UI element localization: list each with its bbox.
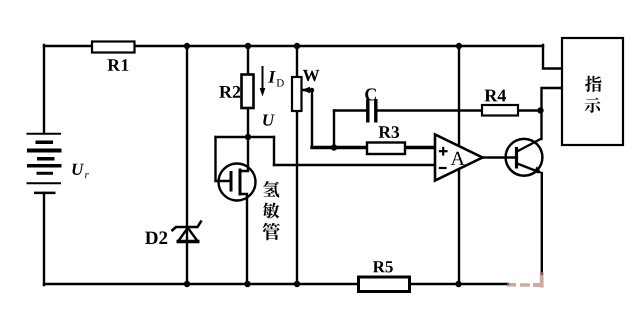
wire gate drop (216, 137, 231, 181)
wire R2 branch upper (247, 46, 249, 75)
label R3 (379, 126, 400, 138)
current arrow ID (262, 66, 264, 90)
wire minus-input horizontal (274, 164, 436, 166)
wire node U horizontal (216, 136, 275, 138)
label C (365, 88, 376, 100)
wire C to R4 (378, 109, 482, 111)
label hydrogen sensor 氢敏管 (263, 181, 279, 197)
resistor R3 (367, 143, 405, 155)
label U (node) (263, 115, 275, 126)
label 示 (585, 98, 601, 113)
battery Ur (27, 134, 62, 193)
node bottom source (244, 281, 250, 287)
resistor R5 (359, 277, 410, 292)
node C/R3 junction (331, 144, 337, 150)
transistor base bar (515, 147, 518, 169)
node top R2 (245, 43, 251, 49)
watermark remnant (red dashes, scan artifact) (507, 272, 544, 288)
label R1 (108, 59, 129, 71)
node bottom D2 (184, 281, 190, 287)
op-amp minus sign (439, 167, 447, 169)
wire collector drop (540, 111, 542, 140)
wire bottom rail (44, 283, 508, 285)
potentiometer W body (292, 77, 302, 111)
op-amp A (435, 135, 483, 181)
resistor R1 (92, 42, 135, 53)
label ID (current) (268, 71, 276, 83)
wire drain (240, 137, 248, 171)
capacitor C plates (366, 99, 369, 123)
resistor R2 (242, 75, 254, 109)
label R4 (485, 90, 506, 102)
transistor Q1 circle (506, 139, 543, 176)
wire W branch lower (296, 111, 298, 285)
transistor emitter (517, 164, 539, 173)
label 指 (585, 76, 602, 92)
wire junction up to indicator stub (542, 88, 563, 111)
wire plus-input with R3 (thick) (312, 146, 436, 149)
wire W branch upper (296, 46, 298, 77)
wire mid riser (crosses behind op-amp) (458, 46, 460, 284)
wire source (240, 194, 247, 284)
wire top-right bend to indicator box (543, 45, 562, 69)
resistor R4 (482, 105, 518, 116)
transistor emitter arrow (533, 166, 542, 173)
hydrogen sensor gate bar (230, 171, 233, 192)
wire top rail (44, 45, 543, 47)
node bottom riser (455, 281, 461, 287)
wire C branch left (334, 109, 366, 111)
node U junction (245, 134, 251, 140)
wire wiper lead (303, 90, 312, 146)
op-amp plus sign (439, 147, 448, 156)
wire D2 branch vertical (186, 46, 188, 284)
transistor collector (517, 139, 542, 152)
node top riser (456, 43, 462, 49)
potentiometer W wiper arrow (302, 87, 311, 93)
node top D2 (184, 43, 190, 49)
wire R4 to junction (518, 109, 540, 111)
label A (op-amp) (451, 152, 465, 165)
node top W (294, 43, 300, 49)
indicator box 指示 (562, 38, 623, 145)
wire R2 branch lower to node U (247, 107, 249, 137)
label R5 (373, 261, 393, 272)
label R2 (219, 86, 240, 98)
hydrogen sensor tube (circle) (219, 164, 256, 201)
wire left rail lower (43, 193, 45, 285)
wire left rail upper (43, 45, 45, 133)
node R4/collector junction (537, 107, 543, 113)
wire C branch vertical (333, 111, 335, 148)
label Ur (battery) (72, 164, 84, 175)
wire op-amp output to base (482, 156, 516, 158)
hydrogen sensor channel bar (239, 169, 242, 196)
wire minus-input step (273, 137, 275, 165)
label D2 (145, 231, 167, 244)
node bottom W (294, 281, 300, 287)
zener diode D2 (172, 221, 202, 242)
label W (303, 70, 320, 81)
wire right riser from bottom to emitter (541, 173, 543, 274)
